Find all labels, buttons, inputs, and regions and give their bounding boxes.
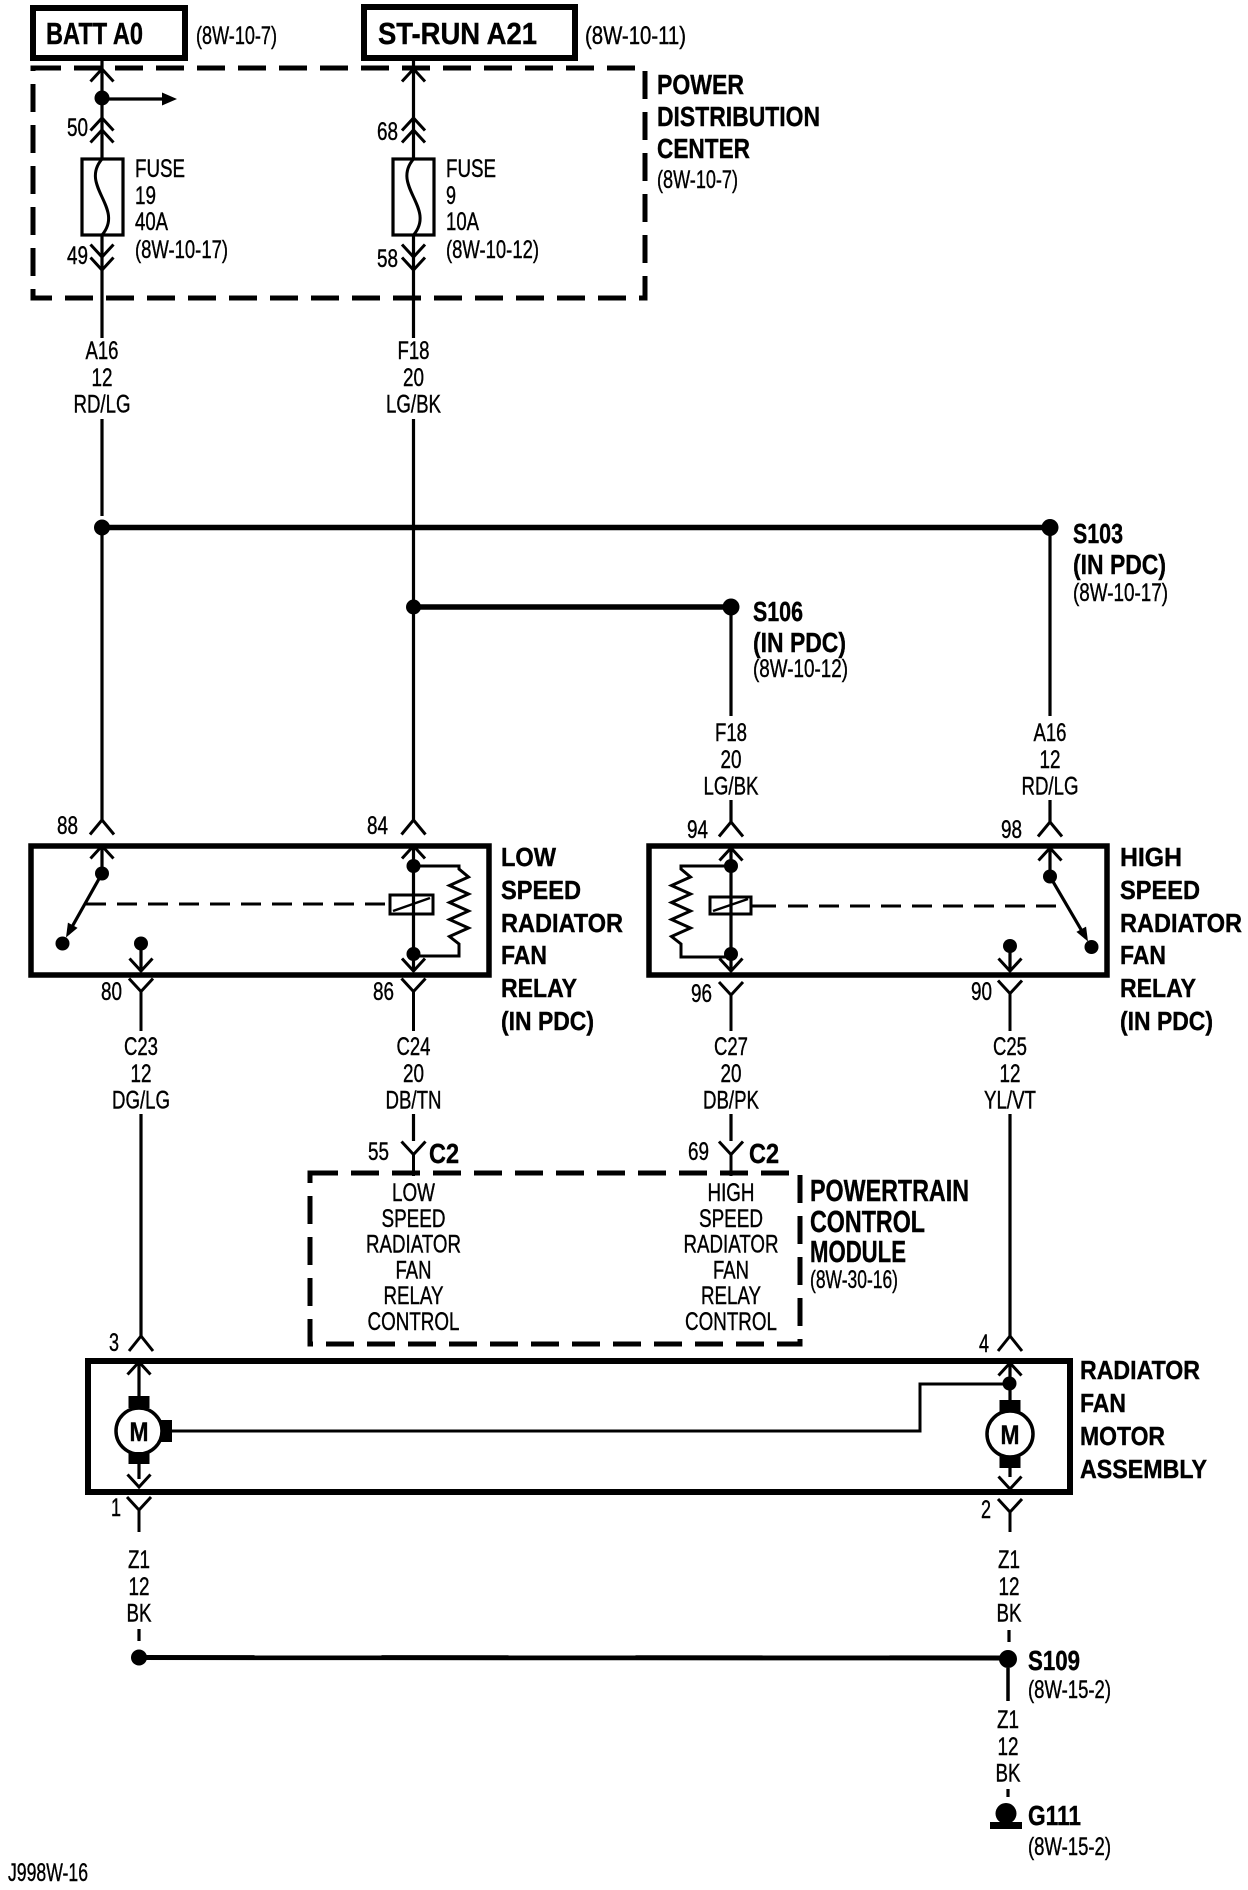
- wire label C25 12 YL/VT: [984, 1033, 1036, 1115]
- motor pin 3 entry arrow: [128, 1362, 151, 1396]
- pin 80 number: [101, 978, 122, 1006]
- connector Y pin 1: [127, 1497, 151, 1532]
- svg-text:RADIATOR: RADIATOR: [366, 1231, 461, 1259]
- connector split pin 4: [998, 1330, 1022, 1351]
- radiator fan motor assembly label: [1080, 1355, 1207, 1484]
- relay pin 80 contact dot: [134, 937, 148, 951]
- svg-text:HIGH: HIGH: [708, 1179, 755, 1207]
- svg-text:12: 12: [131, 1060, 152, 1088]
- svg-text:MODULE: MODULE: [810, 1234, 906, 1269]
- power distribution center label: [657, 69, 820, 194]
- relay pin 90 exit arrow: [999, 946, 1022, 971]
- splice S106: [723, 599, 740, 616]
- svg-text:(8W-10-17): (8W-10-17): [135, 236, 228, 264]
- fuse F19 body: [82, 159, 123, 235]
- svg-text:FUSE: FUSE: [135, 155, 185, 183]
- resistor across low speed relay coil: [413, 866, 469, 956]
- reference (8W-10-11) for ST-RUN A21: [585, 22, 686, 50]
- splice S109: [999, 1650, 1017, 1668]
- svg-text:M: M: [1001, 1420, 1020, 1450]
- fan motor M1 bottom brush: [129, 1452, 150, 1464]
- svg-text:RD/LG: RD/LG: [1022, 773, 1079, 801]
- relay pin 86 exit arrow: [402, 954, 425, 971]
- pin 58 label: [377, 245, 398, 273]
- wire M1 to pin 4 node: [172, 1384, 1004, 1431]
- fan motor M1 top brush: [129, 1396, 150, 1408]
- relay switch arm: [66, 874, 102, 938]
- svg-text:M: M: [130, 1417, 149, 1447]
- wire label C24 20 DB/TN: [386, 1033, 442, 1115]
- motor pin 4 entry arrow: [999, 1363, 1022, 1400]
- powertrain control module box: [310, 1173, 800, 1344]
- svg-text:FUSE: FUSE: [446, 155, 496, 183]
- svg-text:FAN: FAN: [1120, 940, 1166, 970]
- fuse F9 value label: [446, 155, 539, 264]
- relay pin 80 exit arrow: [130, 944, 153, 972]
- svg-text:C24: C24: [397, 1033, 431, 1061]
- svg-text:20: 20: [721, 746, 742, 774]
- svg-text:80: 80: [101, 978, 122, 1006]
- svg-text:S106: S106: [753, 596, 803, 627]
- pin 94 number: [687, 816, 708, 844]
- svg-text:88: 88: [57, 812, 78, 840]
- svg-text:SPEED: SPEED: [699, 1205, 763, 1233]
- fan motor M2 bottom brush: [1000, 1456, 1021, 1468]
- svg-text:(IN PDC): (IN PDC): [753, 627, 846, 658]
- svg-text:(8W-15-2): (8W-15-2): [1028, 1676, 1111, 1704]
- svg-text:10A: 10A: [446, 208, 479, 236]
- wire splice S106 bus: [414, 604, 732, 610]
- svg-text:86: 86: [373, 978, 394, 1006]
- svg-text:1: 1: [111, 1494, 121, 1522]
- svg-text:FAN: FAN: [1080, 1388, 1126, 1418]
- pin 68 label: [377, 118, 398, 146]
- pin 2 number: [981, 1496, 991, 1524]
- node BATT A0 (fused B+ feed): [33, 8, 185, 58]
- svg-text:C25: C25: [993, 1033, 1027, 1061]
- wire RD/LG down to junction: [100, 419, 103, 516]
- connector chevrons pin 68: [402, 118, 425, 143]
- svg-text:(8W-10-12): (8W-10-12): [753, 655, 848, 683]
- svg-text:12: 12: [92, 364, 113, 392]
- relay pin 88 entry arrow: [91, 846, 114, 868]
- wire stub to ground bus (left): [137, 1629, 140, 1641]
- connector C2 label (low): [429, 1138, 459, 1169]
- junction dot motor feed: [1003, 1377, 1017, 1391]
- svg-text:F18: F18: [398, 337, 430, 365]
- svg-text:55: 55: [368, 1138, 389, 1166]
- pin 98 number: [1001, 816, 1022, 844]
- svg-text:20: 20: [403, 1060, 424, 1088]
- svg-text:BK: BK: [997, 1600, 1022, 1628]
- connector Y pin 80: [129, 979, 153, 1032]
- pin 96 number: [691, 980, 712, 1008]
- wire S106 down to label F18: [729, 607, 732, 716]
- svg-text:Z1: Z1: [128, 1546, 150, 1574]
- svg-text:CENTER: CENTER: [657, 133, 750, 164]
- pin 90 number: [971, 978, 992, 1006]
- relay common contact dot (pin 98): [1043, 870, 1057, 884]
- pin 69 number: [688, 1138, 709, 1166]
- wire label A16 12 RD/LG (upper): [74, 337, 131, 419]
- relay coil K2: [710, 897, 751, 914]
- arrow into PDC (col 1): [91, 69, 114, 82]
- relay pin 98 entry arrow: [1039, 848, 1062, 871]
- svg-text:69: 69: [688, 1138, 709, 1166]
- pin 84 number: [367, 812, 388, 840]
- svg-text:FAN: FAN: [713, 1256, 749, 1284]
- wire DG/LG to motor pin 3: [139, 1114, 142, 1336]
- svg-text:49: 49: [67, 242, 88, 270]
- svg-text:94: 94: [687, 816, 708, 844]
- svg-text:12: 12: [999, 1573, 1020, 1601]
- wire label C27 20 DB/PK: [703, 1033, 759, 1115]
- wire stub above S109: [1007, 1630, 1010, 1642]
- svg-text:84: 84: [367, 812, 388, 840]
- svg-text:RELAY: RELAY: [1120, 973, 1196, 1003]
- svg-text:SPEED: SPEED: [382, 1205, 446, 1233]
- wire RD/LG to relay pin 98: [1048, 800, 1051, 822]
- splice S109 label: [1028, 1645, 1111, 1704]
- fuse F19 value label: [135, 155, 228, 264]
- svg-text:LOW: LOW: [392, 1179, 435, 1207]
- pin 49 label: [67, 242, 88, 270]
- connector Y pin 69 C2: [719, 1142, 743, 1177]
- connector C2 label (high): [749, 1138, 779, 1169]
- pin 3 number: [109, 1329, 119, 1357]
- svg-text:BK: BK: [127, 1600, 152, 1628]
- svg-text:FAN: FAN: [501, 940, 547, 970]
- svg-text:A16: A16: [86, 337, 119, 365]
- resistor across high speed relay coil: [672, 866, 732, 957]
- svg-text:CONTROL: CONTROL: [368, 1308, 460, 1336]
- connector Y pin 55 C2: [402, 1142, 426, 1177]
- svg-text:(IN PDC): (IN PDC): [501, 1006, 594, 1036]
- wire through high coil: [729, 866, 732, 954]
- junction dot col2 at S106 bus: [406, 600, 421, 615]
- svg-text:(8W-10-11): (8W-10-11): [585, 22, 686, 50]
- relay coil bottom dot: [407, 947, 421, 961]
- svg-text:YL/VT: YL/VT: [984, 1087, 1036, 1115]
- svg-text:SPEED: SPEED: [1120, 875, 1200, 905]
- svg-text:98: 98: [1001, 816, 1022, 844]
- connector Y pin 86: [402, 979, 426, 1032]
- svg-text:LG/BK: LG/BK: [386, 391, 441, 419]
- svg-text:68: 68: [377, 118, 398, 146]
- svg-text:ST-RUN A21: ST-RUN A21: [378, 16, 537, 51]
- svg-text:DB/PK: DB/PK: [703, 1087, 759, 1115]
- svg-text:RADIATOR: RADIATOR: [1080, 1355, 1200, 1385]
- svg-text:(8W-10-17): (8W-10-17): [1073, 579, 1168, 607]
- svg-text:J998W-16: J998W-16: [8, 1859, 88, 1887]
- splice S106 label: [753, 596, 848, 683]
- svg-text:(8W-10-12): (8W-10-12): [446, 236, 539, 264]
- pin 55 number: [368, 1138, 389, 1166]
- relay common contact dot (pin 88): [95, 867, 109, 881]
- wire label Z1 12 BK (ground leg): [996, 1706, 1021, 1788]
- svg-text:(8W-10-7): (8W-10-7): [196, 22, 277, 50]
- pin 86 number: [373, 978, 394, 1006]
- svg-text:4: 4: [979, 1330, 989, 1358]
- wire label A16 12 RD/LG (lower): [1022, 719, 1079, 801]
- wire label F18 20 LG/BK (lower): [704, 719, 759, 801]
- connector split pin 88: [90, 798, 114, 835]
- wire ST-RUN A21 to fuse 9: [412, 58, 415, 159]
- svg-text:RELAY: RELAY: [501, 973, 577, 1003]
- connector Y pin 2: [998, 1499, 1022, 1532]
- high speed relay label: [1120, 842, 1242, 1036]
- power distribution center box: [33, 68, 645, 298]
- svg-text:DB/TN: DB/TN: [386, 1087, 442, 1115]
- svg-text:12: 12: [998, 1733, 1019, 1761]
- low speed radiator fan relay box: [31, 846, 489, 975]
- wire label Z1 12 BK (left): [127, 1546, 152, 1628]
- fan motor M1 right brush: [161, 1420, 172, 1442]
- wire S106 to relay pin 84: [412, 607, 415, 820]
- svg-text:C27: C27: [714, 1033, 748, 1061]
- relay coil top dot (high): [724, 859, 738, 873]
- svg-text:C2: C2: [429, 1138, 459, 1169]
- svg-text:DISTRIBUTION: DISTRIBUTION: [657, 101, 820, 132]
- connector split pin 84: [402, 798, 426, 835]
- svg-text:A16: A16: [1034, 719, 1067, 747]
- relay coil top dot: [407, 859, 421, 873]
- wire splice S103 bus: [102, 525, 1050, 531]
- drawing number J998W-16: [8, 1859, 88, 1887]
- relay actuation dashed link (left): [86, 903, 389, 906]
- fan motor M1: [116, 1408, 162, 1454]
- wire BATT A0 to fuse 19: [100, 58, 103, 159]
- splice S103 label: [1073, 518, 1168, 607]
- junction dot col1 at S103 bus: [94, 520, 110, 536]
- svg-text:Z1: Z1: [998, 1546, 1020, 1574]
- svg-text:RELAY: RELAY: [384, 1282, 444, 1310]
- svg-text:HIGH: HIGH: [1120, 842, 1182, 872]
- svg-text:S103: S103: [1073, 518, 1123, 549]
- ground G111 label: [1028, 1800, 1111, 1861]
- wire DB/TN to PCM pin 55: [412, 1114, 415, 1141]
- arrow into PDC (col 2): [402, 69, 425, 82]
- relay NC contact dot (high): [1085, 940, 1099, 954]
- svg-text:SPEED: SPEED: [501, 875, 581, 905]
- svg-text:58: 58: [377, 245, 398, 273]
- svg-text:RADIATOR: RADIATOR: [684, 1231, 779, 1259]
- pin 1 number: [111, 1494, 121, 1522]
- wire col1 junction to relay pin 88: [100, 528, 103, 821]
- relay pin 94 entry arrow: [720, 848, 743, 866]
- ground G111: [990, 1803, 1022, 1829]
- svg-text:RADIATOR: RADIATOR: [1120, 908, 1242, 938]
- svg-text:(IN PDC): (IN PDC): [1073, 549, 1166, 580]
- high speed radiator fan relay box: [649, 846, 1107, 975]
- fuse F9 body: [393, 159, 434, 235]
- wire LG/BK to relay pin 94: [729, 800, 732, 822]
- wire label C23 12 DG/LG: [112, 1033, 170, 1115]
- relay coil K1: [390, 895, 433, 914]
- fan motor M2 top brush: [1000, 1400, 1021, 1412]
- relay pin 96 exit arrow: [720, 954, 743, 971]
- junction dot below BATT A0: [95, 91, 110, 106]
- svg-text:LG/BK: LG/BK: [704, 773, 759, 801]
- connector chevrons pin 49: [91, 245, 114, 271]
- wire label F18 20 LG/BK (upper): [386, 337, 441, 419]
- relay switch arm (high): [1050, 877, 1088, 942]
- svg-text:S109: S109: [1028, 1645, 1080, 1676]
- svg-text:LOW: LOW: [501, 842, 556, 872]
- splice S103: [1042, 519, 1059, 536]
- motor pin 2 exit arrow: [999, 1468, 1022, 1489]
- connector Y pin 96: [719, 982, 743, 1031]
- svg-text:20: 20: [403, 364, 424, 392]
- relay pin 84 entry arrow: [402, 846, 425, 866]
- svg-text:BATT A0: BATT A0: [46, 16, 143, 51]
- svg-text:(8W-15-2): (8W-15-2): [1028, 1833, 1111, 1861]
- svg-text:RELAY: RELAY: [701, 1282, 761, 1310]
- relay actuation dashed link (high): [788, 905, 1063, 908]
- relay actuation link stub (high): [751, 905, 776, 908]
- svg-text:96: 96: [691, 980, 712, 1008]
- wire label Z1 12 BK (right): [997, 1546, 1022, 1628]
- svg-text:(IN PDC): (IN PDC): [1120, 1006, 1213, 1036]
- low speed relay label: [501, 842, 623, 1036]
- svg-text:90: 90: [971, 978, 992, 1006]
- wire fuse 9 down through PDC: [412, 235, 415, 338]
- svg-text:9: 9: [446, 182, 456, 210]
- PCM high speed control label: [684, 1179, 779, 1336]
- svg-text:MOTOR: MOTOR: [1080, 1421, 1165, 1451]
- fan motor M2: [987, 1411, 1033, 1457]
- svg-text:20: 20: [721, 1060, 742, 1088]
- connector split pin 98: [1038, 800, 1062, 837]
- motor pin 1 exit arrow: [128, 1464, 151, 1487]
- wire S103 down to label A16: [1048, 528, 1051, 717]
- connector split pin 94: [719, 800, 743, 837]
- connector chevrons pin 58: [402, 245, 425, 271]
- wire stub above G111: [1006, 1789, 1009, 1797]
- wire ground bus to S109: [139, 1655, 1008, 1661]
- wire fuse 19 to splice S103 tap: [100, 235, 103, 338]
- svg-text:2: 2: [981, 1496, 991, 1524]
- svg-text:ASSEMBLY: ASSEMBLY: [1080, 1454, 1207, 1484]
- svg-text:RADIATOR: RADIATOR: [501, 908, 623, 938]
- svg-text:12: 12: [129, 1573, 150, 1601]
- svg-text:50: 50: [67, 114, 88, 142]
- relay NC contact dot: [56, 937, 70, 951]
- svg-text:12: 12: [1000, 1060, 1021, 1088]
- svg-text:DG/LG: DG/LG: [112, 1087, 170, 1115]
- pin 4 number: [979, 1330, 989, 1358]
- junction dot left ground bus: [131, 1650, 147, 1666]
- wire tap arrow to other circuits: [102, 93, 177, 106]
- svg-text:FAN: FAN: [396, 1256, 432, 1284]
- svg-text:G111: G111: [1028, 1800, 1081, 1831]
- svg-text:F18: F18: [715, 719, 747, 747]
- svg-text:C2: C2: [749, 1138, 779, 1169]
- svg-text:C23: C23: [124, 1033, 158, 1061]
- connector split pin 3: [129, 1330, 153, 1351]
- relay coil bottom dot (high): [724, 947, 738, 961]
- svg-text:POWERTRAIN: POWERTRAIN: [810, 1173, 969, 1208]
- PCM low speed control label: [366, 1179, 461, 1336]
- connector Y pin 90: [998, 981, 1022, 1032]
- svg-text:19: 19: [135, 182, 156, 210]
- svg-text:3: 3: [109, 1329, 119, 1357]
- svg-text:RD/LG: RD/LG: [74, 391, 131, 419]
- wire S109 to Z1 label: [1006, 1668, 1010, 1701]
- svg-text:(8W-30-16): (8W-30-16): [810, 1266, 898, 1294]
- pin 50 label: [67, 114, 88, 142]
- node ST-RUN A21 (ignition feed): [364, 7, 575, 58]
- wire DB/PK to PCM pin 69: [729, 1114, 732, 1141]
- svg-text:Z1: Z1: [997, 1706, 1019, 1734]
- wire YL/VT to motor pin 4: [1008, 1114, 1011, 1336]
- svg-text:40A: 40A: [135, 208, 168, 236]
- radiator fan motor assembly box: [88, 1361, 1070, 1492]
- svg-text:BK: BK: [996, 1760, 1021, 1788]
- wire through coil: [412, 866, 415, 954]
- reference (8W-10-7) for BATT A0: [196, 22, 277, 50]
- svg-text:CONTROL: CONTROL: [685, 1308, 777, 1336]
- svg-text:(8W-10-7): (8W-10-7): [657, 166, 738, 194]
- pin 88 number: [57, 812, 78, 840]
- svg-text:12: 12: [1040, 746, 1061, 774]
- connector chevrons pin 50: [91, 118, 114, 143]
- relay pin 90 contact dot: [1003, 939, 1017, 953]
- wire LG/BK down to splice S106: [412, 419, 415, 600]
- powertrain control module heading: [810, 1173, 969, 1294]
- svg-text:POWER: POWER: [657, 69, 744, 100]
